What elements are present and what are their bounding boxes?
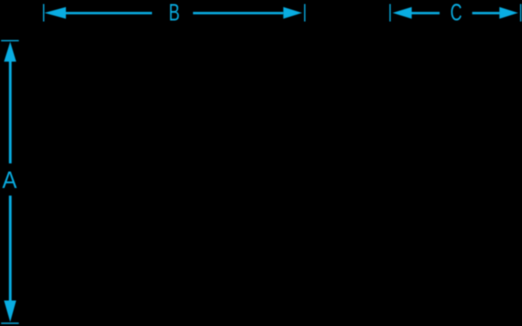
dimension B left tick (43, 4, 44, 22)
svg-text:C: C (450, 0, 462, 26)
dimension B right arrowhead (283, 7, 302, 19)
dimension B left arrowhead (44, 7, 66, 19)
svg-text:B: B (169, 0, 180, 26)
dimension C right arrowhead (499, 7, 518, 19)
dimension C right line segment (472, 12, 499, 14)
svg-text:A: A (2, 167, 17, 194)
dimension B right tick (304, 4, 305, 22)
dimension C left arrowhead (393, 7, 412, 19)
dimension A bottom arrowhead (4, 301, 16, 323)
dimension C left tick (389, 4, 390, 22)
dimension A top arrowhead (4, 42, 16, 62)
dimension B left line segment (65, 12, 152, 14)
dimension C left line segment (411, 12, 439, 14)
dimension A top tick (1, 40, 19, 41)
dimension A bottom tick (1, 323, 19, 324)
dimension A upper line segment (9, 61, 12, 164)
dimension A lower line segment (9, 196, 12, 301)
dimension B right line segment (193, 12, 283, 14)
dimension C right tick (520, 4, 521, 22)
